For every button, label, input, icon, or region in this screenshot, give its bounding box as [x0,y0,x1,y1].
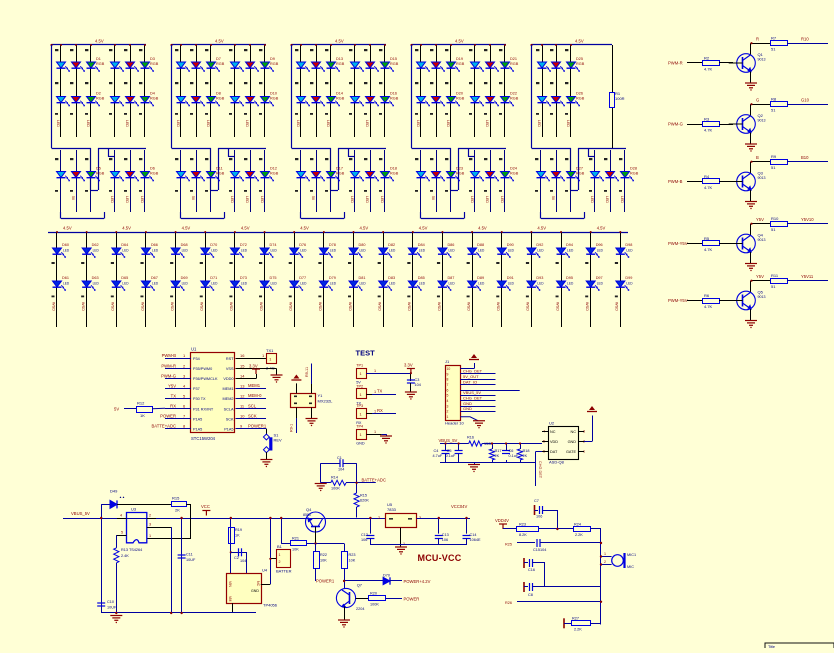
svg-text:R6: R6 [704,293,710,298]
svg-text:DAT: DAT [550,450,558,454]
svg-text:4.7K: 4.7K [704,185,713,190]
svg-text:TP1: TP1 [356,364,363,368]
svg-text:D65: D65 [121,276,128,280]
svg-text:BATTE+ADC: BATTE+ADC [362,478,386,483]
svg-text:C14: C14 [470,533,477,537]
svg-text:GND: GND [463,406,472,411]
svg-text:WSD: WSD [496,302,500,311]
svg-text:MEM2: MEM2 [223,397,234,401]
svg-text:B: B [756,155,759,160]
svg-text:8550: 8550 [303,513,311,517]
svg-text:WSD: WSD [81,302,85,311]
svg-text:Q4: Q4 [758,233,764,238]
svg-text:4.5V: 4.5V [419,226,428,231]
svg-text:D61: D61 [62,276,69,280]
svg-text:1: 1 [447,415,449,419]
svg-text:LED: LED [380,196,384,203]
svg-text:PWM-R: PWM-R [668,61,683,66]
svg-text:LED: LED [63,249,70,253]
svg-text:4.7K: 4.7K [704,304,713,309]
svg-text:104: 104 [540,548,546,552]
svg-text:U4: U4 [262,568,268,573]
svg-text:P31 RX/INT: P31 RX/INT [193,407,214,411]
svg-text:R13 TS4264: R13 TS4264 [121,548,142,552]
svg-text:R3: R3 [704,117,710,122]
svg-text:3: 3 [447,404,449,408]
svg-text:LED: LED [93,249,100,253]
svg-text:R26: R26 [505,601,512,605]
svg-text:D27: D27 [576,167,583,171]
svg-text:D87: D87 [447,276,454,280]
svg-text:5V_OUT: 5V_OUT [463,374,479,379]
svg-text:R22: R22 [320,553,327,557]
svg-text:8.2K: 8.2K [519,533,527,537]
svg-text:LED: LED [537,120,541,127]
svg-text:D10: D10 [270,92,277,96]
svg-text:2K: 2K [175,508,180,513]
svg-text:LED: LED [296,120,300,127]
svg-text:D60: D60 [62,243,69,247]
svg-text:4.5V: 4.5V [575,39,584,44]
svg-text:NC: NC [256,581,260,587]
svg-text:D72: D72 [240,243,247,247]
svg-text:D18: D18 [390,167,397,171]
svg-text:R4: R4 [704,174,710,179]
svg-text:C2: C2 [234,556,239,560]
svg-text:Y5V10: Y5V10 [801,217,814,222]
svg-text:D85: D85 [418,276,425,280]
svg-text:14: 14 [240,373,245,378]
svg-text:LED: LED [485,120,489,127]
svg-text:4.5V: 4.5V [215,39,224,44]
svg-text:R10: R10 [801,37,809,42]
svg-text:PWM-G: PWM-G [668,122,683,127]
svg-text:RGB: RGB [576,97,585,101]
svg-text:LED: LED [211,249,218,253]
svg-text:WSD: WSD [318,302,322,311]
svg-text:LED: LED [360,282,367,286]
svg-text:U3: U3 [131,507,137,512]
svg-text:13: 13 [240,383,245,388]
svg-text:C4: C4 [434,449,439,453]
svg-text:R9-1: R9-1 [290,424,294,432]
svg-text:D64: D64 [121,243,128,247]
svg-text:10: 10 [240,414,245,419]
svg-text:2.2K: 2.2K [575,533,583,537]
svg-text:GND: GND [251,589,259,593]
svg-text:U1: U1 [191,347,197,352]
svg-text:D74: D74 [270,243,277,247]
svg-text:D62: D62 [92,243,99,247]
svg-text:50: 50 [311,196,315,200]
svg-text:104: 104 [240,559,246,563]
svg-text:51: 51 [771,108,776,113]
svg-text:LED: LED [508,249,515,253]
svg-text:2204: 2204 [356,607,364,611]
svg-text:VDD: VDD [550,440,558,444]
svg-text:PWM-B: PWM-B [668,179,683,184]
svg-text:RGB: RGB [216,62,225,66]
svg-text:LED: LED [508,282,515,286]
svg-text:2: 2 [447,410,449,414]
svg-text:LED: LED [626,282,633,286]
svg-text:RGB: RGB [150,62,159,66]
svg-text:BATTER: BATTER [276,569,292,574]
svg-text:LED: LED [86,120,90,127]
svg-text:LED: LED [122,282,129,286]
svg-text:10UF: 10UF [186,558,196,562]
svg-text:R: R [756,37,759,42]
svg-text:Q7: Q7 [357,583,363,588]
svg-text:D88: D88 [477,243,484,247]
svg-text:RX: RX [170,404,176,409]
svg-text:Q3: Q3 [758,171,764,176]
svg-text:P37: P37 [193,387,200,391]
svg-text:D13: D13 [336,57,343,61]
svg-text:SCL: SCL [248,403,257,408]
svg-text:P30 TX: P30 TX [193,397,206,401]
svg-text:WSD: WSD [526,302,530,311]
svg-text:LED: LED [416,120,420,127]
svg-text:1: 1 [269,357,271,361]
svg-text:9013: 9013 [758,176,766,180]
svg-text:Q2: Q2 [758,113,764,118]
svg-text:TX1: TX1 [266,348,274,353]
svg-text:WSD: WSD [377,302,381,311]
svg-text:Q4: Q4 [306,507,312,512]
svg-text:GND: GND [463,401,472,406]
svg-text:2: 2 [279,560,281,564]
svg-text:1: 1 [360,412,362,416]
svg-text:C10: C10 [107,600,114,604]
svg-text:104: 104 [415,383,421,387]
svg-text:RGB: RGB [456,97,465,101]
svg-text:RGB: RGB [216,172,225,176]
svg-text:TEST: TEST [356,349,376,358]
svg-text:LED: LED [211,282,218,286]
svg-text:GATE: GATE [566,450,577,454]
svg-text:LED: LED [590,196,594,203]
svg-text:R23: R23 [349,553,356,557]
svg-text:50: 50 [71,196,75,200]
svg-text:10UF: 10UF [107,606,117,610]
svg-text:C12: C12 [361,533,368,537]
svg-text:LED: LED [271,282,278,286]
svg-text:LED: LED [500,196,504,203]
svg-text:9013: 9013 [758,58,766,62]
svg-text:4.5V: 4.5V [537,226,546,231]
svg-text:R18: R18 [523,449,530,453]
svg-text:R17: R17 [495,449,502,453]
svg-text:RGB: RGB [96,172,105,176]
svg-text:51: 51 [771,227,776,232]
svg-text:LED: LED [626,249,633,253]
svg-text:D66: D66 [151,243,158,247]
svg-text:D11: D11 [216,167,223,171]
svg-text:MEM-0: MEM-0 [248,393,262,398]
svg-text:9013: 9013 [758,119,766,123]
svg-text:D78: D78 [329,243,336,247]
svg-text:R15: R15 [360,494,367,498]
svg-text:GND: GND [568,440,577,444]
svg-text:WSD: WSD [348,302,352,311]
svg-text:51: 51 [771,47,776,52]
svg-text:D4: D4 [150,92,155,96]
svg-text:9013: 9013 [758,238,766,242]
svg-text:Y5V11: Y5V11 [801,274,814,279]
svg-text:R12: R12 [137,401,145,406]
svg-text:WSD: WSD [200,302,204,311]
svg-text:50: 50 [551,196,555,200]
svg-text:WSD: WSD [51,302,55,311]
svg-text:4.5V: 4.5V [335,39,344,44]
svg-text:LED: LED [597,249,604,253]
svg-text:LED: LED [605,196,609,203]
svg-text:LED: LED [206,120,210,127]
svg-text:PWM-R: PWM-R [161,363,176,368]
svg-text:D25: D25 [576,57,583,61]
svg-text:C8: C8 [528,593,533,597]
svg-text:WSD: WSD [437,302,441,311]
svg-text:LED: LED [448,282,455,286]
svg-text:WSD: WSD [585,302,589,311]
svg-text:DAT_IO: DAT_IO [463,379,477,384]
svg-text:LED: LED [140,196,144,203]
svg-text:4.5V: 4.5V [300,226,309,231]
svg-text:D91: D91 [507,276,514,280]
svg-text:15: 15 [240,363,245,368]
svg-text:1: 1 [149,534,151,538]
svg-text:R7: R7 [771,36,777,41]
svg-text:RGB: RGB [456,62,465,66]
svg-text:104: 104 [338,468,344,472]
svg-text:LED: LED [230,196,234,203]
svg-text:D89: D89 [477,276,484,280]
svg-text:VIN: VIN [228,581,232,587]
svg-text:1: 1 [360,393,362,397]
svg-text:LED: LED [567,282,574,286]
svg-text:100K: 100K [331,487,340,491]
svg-text:106: 106 [536,515,542,519]
svg-text:1K: 1K [235,534,240,538]
svg-text:D1: D1 [96,57,101,61]
svg-text:100K: 100K [370,602,379,606]
svg-text:POWER: POWER [160,414,176,419]
svg-text:Y5V: Y5V [756,217,764,222]
svg-text:D24: D24 [510,167,517,171]
svg-text:LED: LED [152,249,159,253]
svg-text:4.5V: 4.5V [455,39,464,44]
svg-text:D9: D9 [270,57,275,61]
svg-text:R24: R24 [574,523,581,527]
svg-text:LED: LED [537,249,544,253]
svg-text:1064E: 1064E [470,538,481,542]
svg-text:R25: R25 [505,543,512,547]
svg-text:2: 2 [604,560,606,564]
svg-text:8: 8 [447,378,449,382]
svg-text:B10: B10 [801,155,809,160]
svg-text:3.3V: 3.3V [249,364,258,369]
svg-text:NC: NC [571,430,577,434]
svg-text:10K: 10K [292,548,299,552]
svg-text:1: 1 [374,390,376,394]
svg-text:D26: D26 [576,92,583,96]
svg-text:D82: D82 [388,243,395,247]
svg-text:D94: D94 [566,243,573,247]
svg-text:C16: C16 [528,568,535,572]
svg-text:2K: 2K [523,454,528,458]
svg-text:R10: R10 [771,216,779,221]
svg-text:D21: D21 [510,57,517,61]
svg-text:POWER+4.2V: POWER+4.2V [404,579,431,584]
svg-text:5: 5 [447,394,449,398]
svg-text:Y5V: Y5V [756,274,764,279]
svg-text:LED: LED [271,249,278,253]
svg-text:4.5V: 4.5V [360,226,369,231]
svg-text:Q5: Q5 [758,290,764,295]
svg-text:LED: LED [446,120,450,127]
svg-text:6: 6 [447,388,449,392]
svg-text:4.5V: 4.5V [95,39,104,44]
svg-text:4.7K: 4.7K [704,67,713,72]
svg-text:LED: LED [152,282,159,286]
svg-text:D20: D20 [456,92,463,96]
svg-text:TP3: TP3 [356,404,363,408]
svg-text:NC: NC [550,430,556,434]
svg-text:LED: LED [241,249,248,253]
svg-text:VDD0: VDD0 [223,377,233,381]
svg-text:D67: D67 [151,276,158,280]
svg-text:D70: D70 [210,243,217,247]
svg-text:LED: LED [330,282,337,286]
svg-text:D69: D69 [181,276,188,280]
svg-text:D17: D17 [336,167,343,171]
svg-text:D49: D49 [110,489,118,494]
svg-text:RST: RST [226,357,234,361]
svg-text:LED: LED [350,196,354,203]
svg-text:SCLA: SCLA [224,407,234,411]
svg-text:D12: D12 [270,167,277,171]
svg-text:LED: LED [125,196,129,203]
svg-text:D63: D63 [92,276,99,280]
svg-text:P1A5: P1A5 [193,417,202,421]
svg-text:RGB: RGB [150,97,159,101]
svg-text:BATTE+ADC: BATTE+ADC [152,424,176,429]
svg-text:D3: D3 [150,57,155,61]
svg-text:4.5V: 4.5V [122,226,131,231]
svg-text:1: 1 [604,552,606,556]
svg-text:RGB: RGB [390,172,399,176]
svg-text:RGB: RGB [96,62,105,66]
svg-text:LED: LED [365,196,369,203]
svg-text:D6: D6 [150,167,155,171]
svg-text:C1: C1 [337,456,342,460]
svg-text:16: 16 [240,353,245,358]
svg-text:D79: D79 [329,276,336,280]
svg-text:10: 10 [447,367,451,371]
svg-text:C11: C11 [186,553,193,557]
svg-text:4.5V: 4.5V [597,226,606,231]
svg-text:4: 4 [120,514,122,518]
svg-text:P1A5: P1A5 [224,427,233,431]
svg-text:4.5V: 4.5V [182,226,191,231]
svg-text:106: 106 [442,538,448,542]
svg-text:WSD: WSD [229,302,233,311]
svg-text:P34: P34 [193,357,200,361]
svg-text:LED: LED [597,282,604,286]
svg-text:POWER: POWER [404,596,420,601]
svg-text:RGB: RGB [630,172,639,176]
svg-text:P1A5: P1A5 [193,427,202,431]
svg-text:MCU-VCC: MCU-VCC [418,553,462,563]
svg-text:VBUS_5V: VBUS_5V [439,438,458,443]
svg-text:R8: R8 [771,97,777,102]
svg-text:MIC1: MIC1 [627,553,636,557]
svg-text:R23: R23 [519,523,526,527]
svg-text:LED: LED [300,249,307,253]
svg-text:C13: C13 [442,533,449,537]
svg-text:G10: G10 [801,98,810,103]
svg-text:LED: LED [566,120,570,127]
svg-text:LED: LED [470,196,474,203]
svg-text:LED: LED [620,196,624,203]
svg-text:C6: C6 [509,449,514,453]
svg-text:4: 4 [447,399,449,403]
svg-text:R9-11: R9-11 [305,367,309,377]
svg-text:LED: LED [93,282,100,286]
svg-text:LED: LED [389,249,396,253]
svg-text:D90: D90 [507,243,514,247]
svg-text:9013: 9013 [758,295,766,299]
svg-text:Y5V: Y5V [168,383,176,388]
svg-text:D93: D93 [536,276,543,280]
svg-text:12: 12 [240,393,245,398]
svg-text:G: G [756,98,759,103]
svg-text:10K: 10K [320,559,327,563]
svg-text:2: 2 [378,516,380,520]
svg-text:MEM1: MEM1 [248,383,261,388]
svg-text:WSD: WSD [466,302,470,311]
svg-text:50: 50 [431,196,435,200]
svg-text:ASD-Q8: ASD-Q8 [549,460,565,465]
svg-text:RGB: RGB [336,172,345,176]
svg-text:D83: D83 [388,276,395,280]
svg-text:D28: D28 [630,167,637,171]
svg-text:LED: LED [365,120,369,127]
svg-text:PWM-Y5V: PWM-Y5V [668,298,688,303]
svg-text:CHG_DET: CHG_DET [463,395,483,400]
svg-text:LED: LED [176,120,180,127]
svg-text:SCK: SCK [248,413,257,418]
svg-text:R20: R20 [370,592,377,596]
svg-text:2.2K: 2.2K [574,628,582,632]
svg-text:D75: D75 [270,276,277,280]
svg-text:WSD: WSD [615,302,619,311]
svg-text:RGB: RGB [576,62,585,66]
svg-text:RGB: RGB [336,97,345,101]
svg-text:3.3V: 3.3V [404,363,413,368]
svg-text:RGB: RGB [510,62,519,66]
svg-text:D2: D2 [96,92,101,96]
svg-text:3: 3 [149,523,151,527]
svg-text:R14: R14 [331,476,338,480]
svg-text:WSD: WSD [407,302,411,311]
svg-text:C5: C5 [447,449,452,453]
svg-text:SCK: SCK [226,417,234,421]
svg-text:1: 1 [360,372,362,376]
svg-text:RGB: RGB [510,97,519,101]
svg-text:D80: D80 [359,243,366,247]
